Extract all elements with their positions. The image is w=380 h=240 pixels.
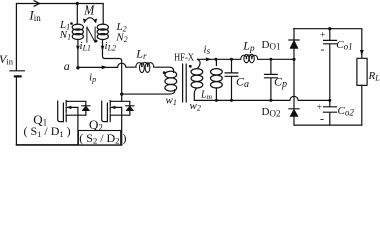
svg-text:iL2: iL2 [105, 40, 117, 53]
svg-text:Cp: Cp [274, 74, 287, 90]
svg-text:HF-X: HF-X [174, 52, 194, 63]
svg-text:a: a [64, 59, 70, 73]
svg-text:Co1: Co1 [336, 39, 352, 52]
svg-text:( S1 / D1 ): ( S1 / D1 ) [24, 124, 71, 139]
svg-text:ip: ip [89, 72, 96, 85]
svg-text:is: is [204, 44, 211, 57]
svg-text:M: M [83, 3, 95, 18]
svg-text:Ca: Ca [236, 74, 249, 90]
svg-text:Co2: Co2 [338, 105, 355, 118]
svg-text:Lr: Lr [135, 46, 147, 61]
svg-text:DO1: DO1 [262, 39, 281, 52]
svg-text:( S2 / D2 ): ( S2 / D2 ) [79, 131, 126, 146]
svg-text:DO2: DO2 [262, 106, 281, 119]
svg-text:+: + [320, 31, 325, 41]
svg-text:RL: RL [368, 70, 380, 83]
svg-text:w2: w2 [190, 100, 201, 113]
svg-text:Lp: Lp [242, 39, 255, 54]
svg-text:-: - [320, 112, 324, 126]
svg-text:Iin: Iin [28, 7, 41, 23]
svg-text:iL1: iL1 [80, 40, 92, 53]
svg-text:w1: w1 [166, 95, 177, 108]
svg-text:-: - [321, 42, 325, 56]
svg-text:Vin: Vin [0, 52, 14, 67]
svg-text:Lm: Lm [200, 90, 213, 102]
